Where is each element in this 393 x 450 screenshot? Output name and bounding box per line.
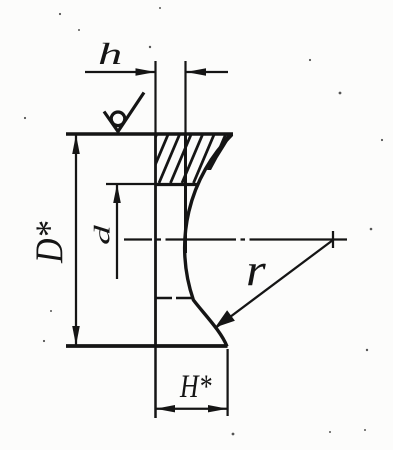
wire inner vertical line B extension top bbox=[184, 61, 186, 134]
radius arrowhead bbox=[215, 310, 235, 327]
svg-text:H*: H* bbox=[179, 369, 211, 405]
hidden bore line dashed bbox=[156, 297, 193, 299]
dimension line d bbox=[116, 184, 118, 279]
svg-text:d: d bbox=[90, 224, 115, 245]
roughness symbol bbox=[104, 93, 144, 132]
dimension line H* bbox=[156, 408, 228, 410]
D* top arrowhead bbox=[72, 135, 80, 155]
svg-text:D*: D* bbox=[27, 221, 71, 264]
h left arrowhead bbox=[136, 68, 156, 76]
bore line thick object segment bbox=[156, 183, 199, 186]
dimension line D* bbox=[75, 134, 77, 346]
hatching section bbox=[136, 133, 238, 183]
d arrowhead bbox=[113, 184, 121, 203]
h right arrowhead bbox=[186, 68, 206, 76]
wire bottom surface line bbox=[66, 344, 228, 348]
wire left vertical edge A extension top bbox=[154, 61, 156, 134]
svg-text:h: h bbox=[98, 37, 122, 71]
wire left vertical edge A extension bottom bbox=[154, 346, 157, 418]
concave arc profile bbox=[185, 135, 232, 347]
wire inner vertical line B body bbox=[184, 134, 187, 253]
H* right arrowhead bbox=[208, 405, 228, 412]
wire top surface line bbox=[66, 132, 233, 136]
dimension line h bbox=[85, 71, 156, 73]
center line bbox=[124, 238, 347, 240]
wire left vertical edge A body bbox=[154, 134, 157, 346]
bore line (d extension) bbox=[106, 183, 156, 185]
center mark tick bbox=[332, 231, 334, 248]
D* bottom arrowhead bbox=[72, 326, 80, 346]
H* left arrowhead bbox=[156, 405, 176, 412]
thick ink wedge at top corner of arc bbox=[207, 135, 232, 171]
radius leader line r bbox=[216, 240, 333, 328]
H* right extension line bbox=[226, 349, 228, 416]
svg-text:r: r bbox=[246, 245, 266, 295]
